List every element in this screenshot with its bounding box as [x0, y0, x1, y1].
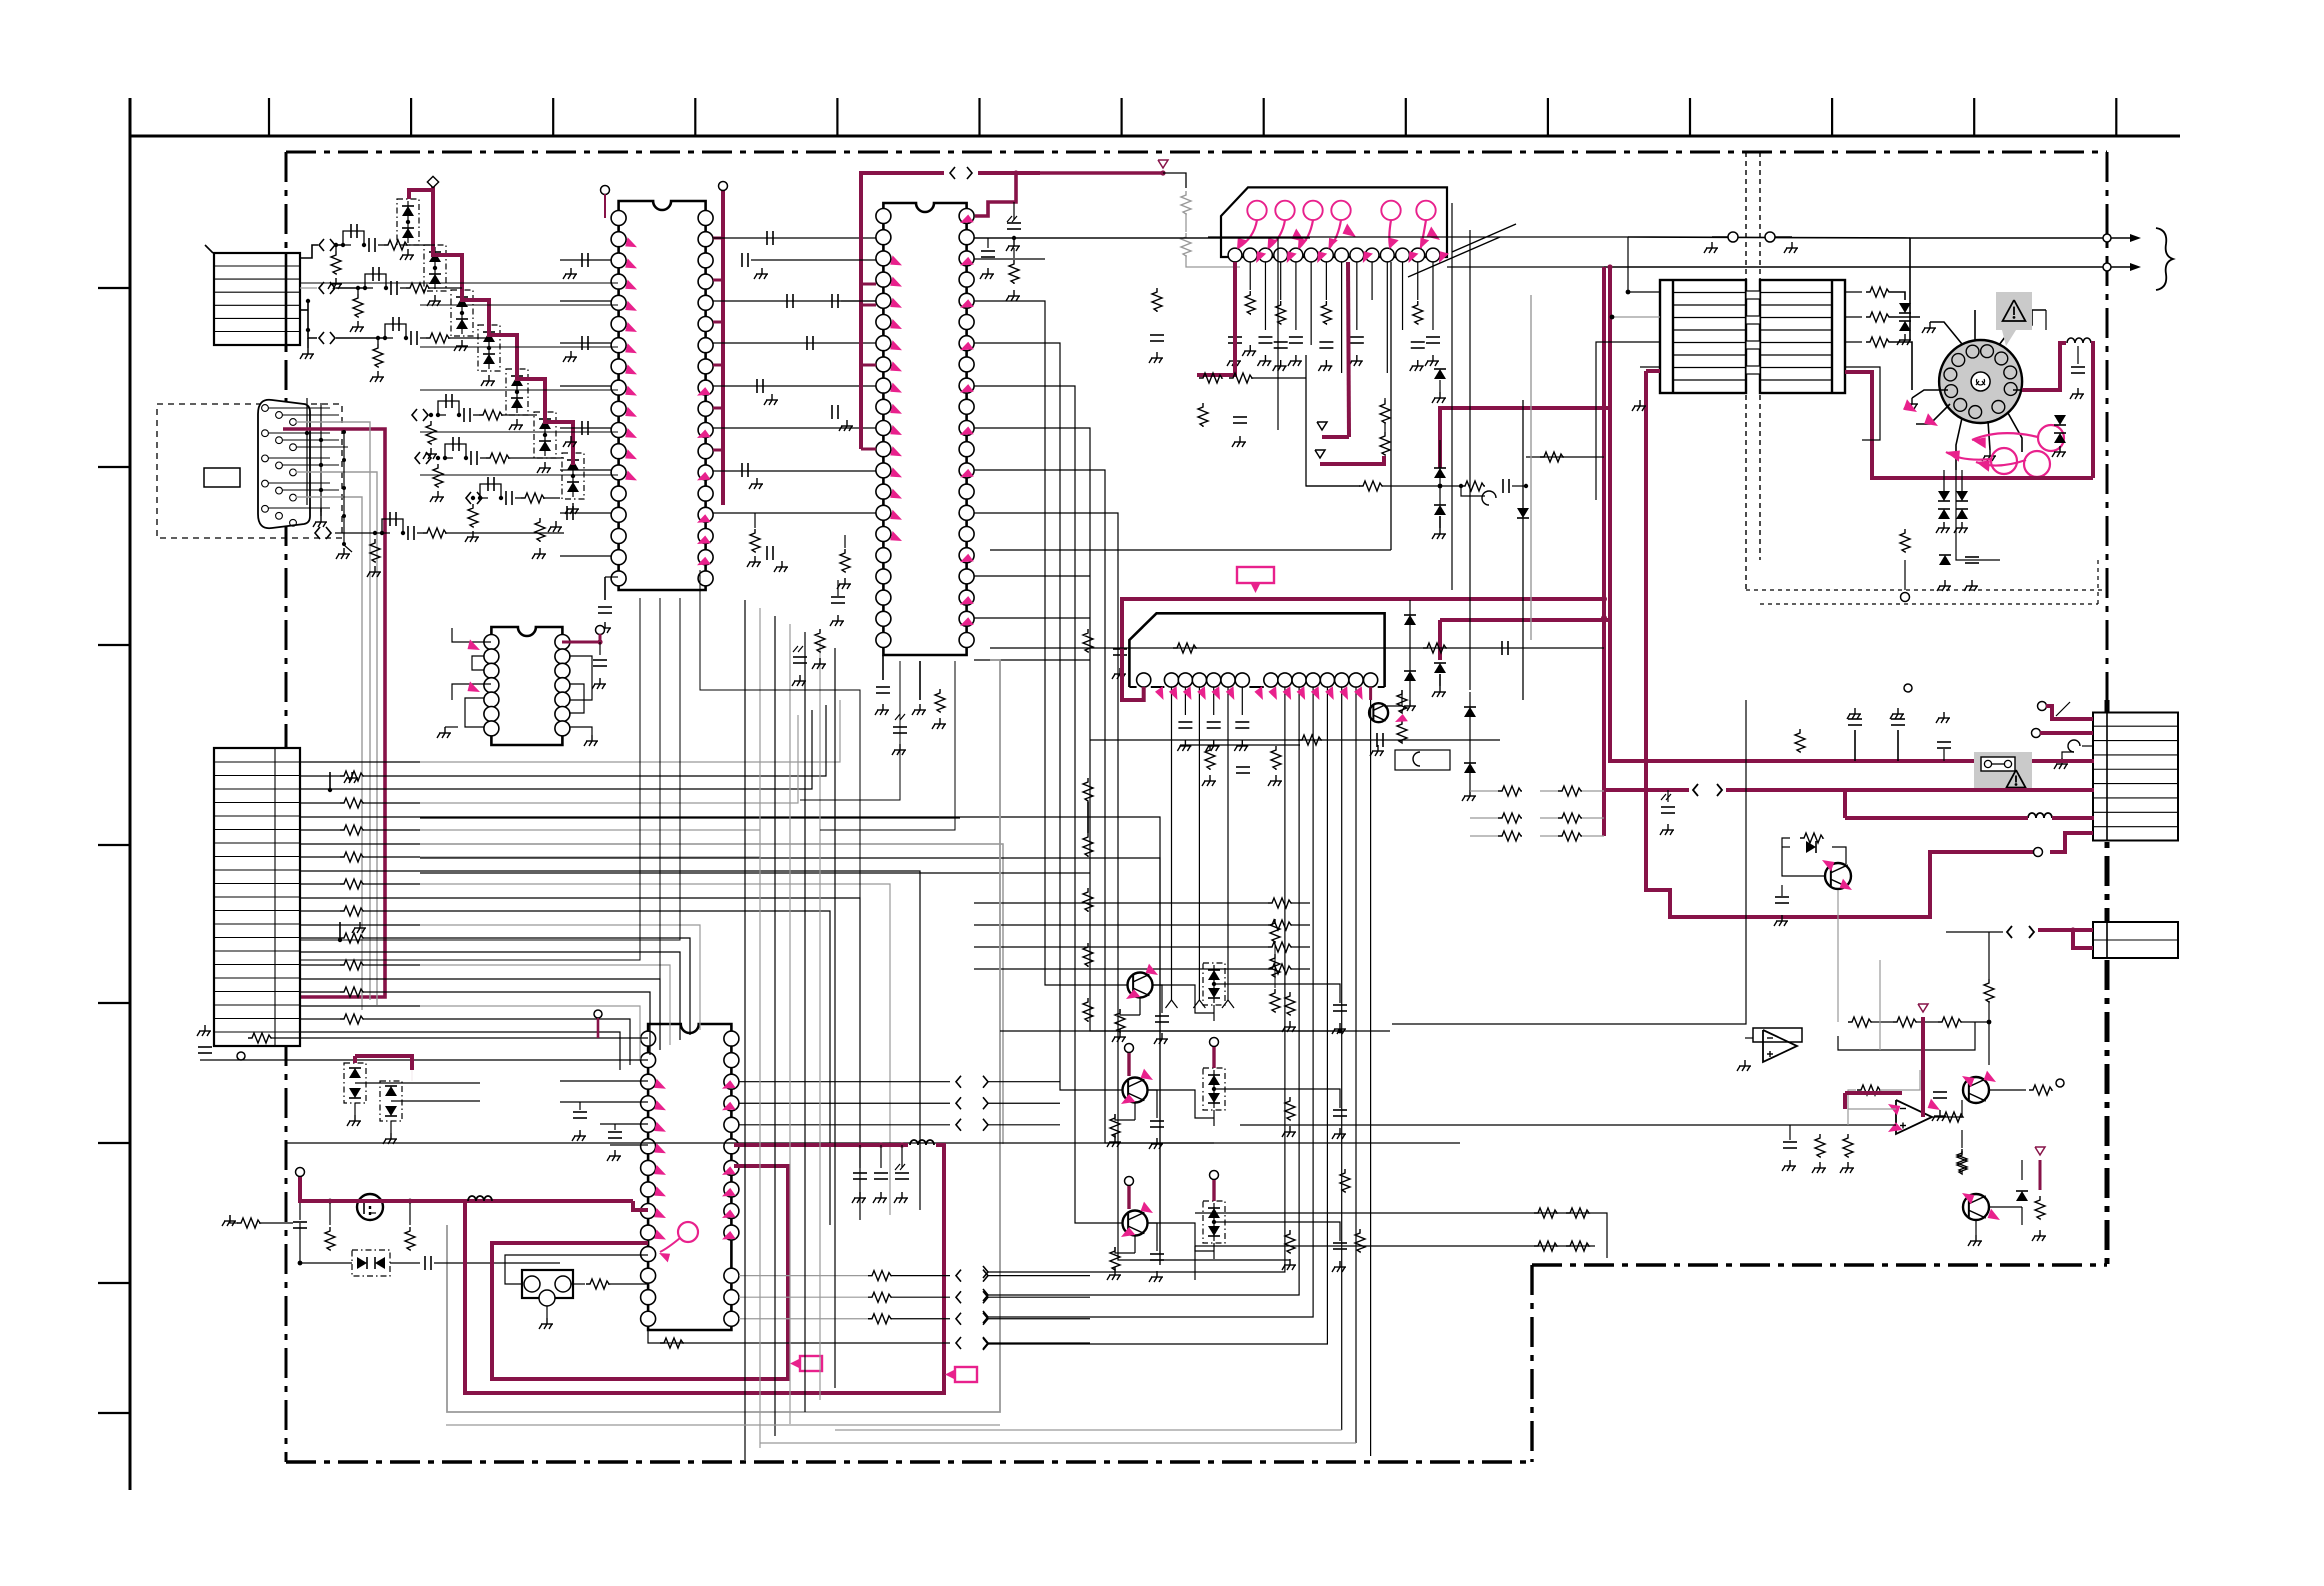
diode pack D64	[380, 1081, 402, 1144]
clamp diode pack D613	[1148, 1201, 1291, 1259]
switch transistor Q613	[1107, 1202, 1164, 1282]
motor ground bottom	[1989, 450, 1991, 456]
IC4 maroon supply	[1122, 596, 1610, 700]
row4 shunt resistor	[423, 413, 437, 459]
IC4 emitter follower Q601	[1369, 687, 1408, 756]
frame top tick marks	[269, 98, 2116, 136]
service position balloons	[1903, 399, 2064, 477]
cross wires IC1 area	[300, 283, 618, 475]
input chevrons CN2 row	[315, 527, 320, 539]
bus wire B2	[420, 844, 1003, 1144]
diode pack D603	[451, 290, 473, 336]
head block pin drops	[1227, 262, 1440, 373]
maroon D63 feed	[355, 1056, 412, 1081]
right vertical feed	[1392, 700, 1746, 1024]
IC2 left lower rc	[792, 580, 845, 686]
maroon CN52 link	[1946, 926, 2093, 948]
motor sense diodes	[1936, 470, 1968, 533]
connector CN1	[214, 253, 300, 345]
motor bottom run	[1900, 470, 2000, 692]
right gray drop	[1879, 960, 1881, 1050]
head bias resistor row	[1199, 373, 1306, 383]
op-amp IC52b	[1240, 1070, 1947, 1173]
ground for D605	[516, 419, 518, 425]
Q613 maroon stub	[1125, 1177, 1134, 1210]
Q612 maroon stub	[1125, 1044, 1134, 1077]
label T602	[955, 1367, 977, 1382]
vertical harness bundle	[745, 600, 835, 1460]
transformer left leads	[1208, 237, 1660, 500]
wire to output lower	[1604, 266, 2103, 268]
IC2 pink arrows	[890, 215, 974, 626]
decoupling row B	[832, 294, 876, 589]
rotary transformer T501 rotor	[1760, 280, 1845, 393]
dashed terminals top	[1704, 232, 1798, 253]
fuse warning block	[1974, 752, 2032, 790]
group 3 bias parts	[1282, 1222, 1347, 1272]
diode pack D607	[562, 453, 584, 499]
CN2 gray harness	[296, 422, 377, 1010]
CN51 pin2 maroon	[2032, 729, 2094, 738]
frame left tick marks	[98, 288, 130, 1413]
IC1 bottom ground	[597, 577, 618, 633]
row1 shunt resistor	[328, 243, 342, 289]
board boundary dash-dot bottom	[286, 1460, 1532, 1463]
connector CN2 D-sub dashed enclosure	[157, 404, 342, 538]
CN2 option block	[204, 468, 240, 487]
IC3 maroon caps	[852, 1142, 909, 1203]
RC cluster row6	[478, 477, 560, 505]
right resistor chain	[1838, 890, 1994, 1065]
CN51 pin3 hook	[2054, 740, 2093, 769]
drum motor M501	[1939, 340, 2022, 423]
wire to output arrows	[1910, 238, 2103, 340]
RC cluster row3	[383, 317, 490, 345]
IC2 maroon supply left	[861, 167, 1040, 449]
input chevrons row6	[466, 492, 471, 504]
dual diode pack D62	[298, 1223, 560, 1276]
head block maroon bus	[1197, 262, 1349, 437]
nabla terminal above IC2 rail	[1158, 160, 1168, 168]
gray return bus	[447, 660, 1000, 1412]
clamp diode pack D612	[1148, 1068, 1291, 1126]
diode pack D605	[506, 369, 528, 415]
maroon rail V2 top	[1608, 268, 1612, 408]
IC1 left pin components	[532, 253, 611, 559]
output arrow upper	[2103, 234, 2141, 242]
row5 shunt resistor	[430, 456, 444, 502]
bus wire B3	[420, 858, 1160, 1265]
bias rail row 2	[1195, 1241, 1595, 1280]
divider resistors x1385	[1380, 398, 1390, 455]
label T601	[800, 1356, 822, 1371]
motor lead wires	[1912, 310, 2046, 470]
rail continuation wire	[1163, 173, 1240, 267]
diode pack D602	[424, 245, 446, 291]
IC3 top terminals	[594, 1010, 602, 1038]
transformer right maroon jog	[1845, 372, 2093, 478]
IC1 bottom drop wires	[300, 570, 860, 1060]
transformer coupling links	[1746, 291, 1760, 374]
connector CN3	[214, 748, 300, 1046]
mid vertical x1523	[1517, 400, 1529, 700]
output brace	[2156, 228, 2173, 290]
decoupling row A	[742, 253, 876, 572]
IC1 top terminals	[601, 186, 610, 195]
IC4 maroon pin1 branch	[1142, 687, 1145, 702]
supply staircase maroon wiring	[409, 186, 573, 465]
IC3 adjust balloon	[659, 1222, 698, 1262]
maroon MOSFET rail	[296, 1168, 649, 1211]
row6 shunt resistor	[465, 496, 479, 542]
group 1 bias parts	[1282, 984, 1347, 1034]
group horizontal rails	[286, 1029, 1460, 1144]
IC2 maroon supply right top	[975, 170, 1166, 216]
CN2 ground bundle	[336, 430, 352, 559]
right rail caps	[1660, 708, 1951, 835]
crystal X601	[505, 1255, 648, 1329]
board boundary dash-dot step vertical	[1530, 1265, 1533, 1462]
row3 shunt resistor	[370, 336, 384, 382]
head wiring arrows	[1237, 220, 1449, 263]
input chevrons row1	[319, 239, 324, 251]
frame top border	[130, 135, 2180, 138]
warning callout W1	[1996, 292, 2032, 346]
bus wire B1	[420, 817, 960, 819]
mid vertical black x1391	[990, 262, 1391, 550]
right transistor Q51	[1774, 833, 1852, 926]
video head assembly outline	[1221, 187, 1447, 257]
IC2 bottom drop wires	[800, 661, 955, 830]
RC cluster row7	[380, 512, 564, 540]
motor ground left	[1911, 398, 1913, 404]
IC602 video process	[876, 203, 974, 655]
maroon rail V3	[1646, 371, 2042, 917]
maroon rail V2	[1610, 408, 2094, 761]
mid vertical drop x1452	[1451, 203, 1453, 590]
IC3 right upper wires	[739, 1076, 1060, 1131]
board boundary dash-dot bottom-right	[1532, 1263, 2107, 1266]
connector CN2 D-sub shell	[258, 400, 310, 528]
CN3 shield terminal	[237, 1052, 245, 1060]
ground for D602	[434, 295, 436, 301]
board boundary dash-dot left	[285, 152, 288, 1462]
IC2 bottom caps	[875, 655, 946, 755]
group 2 bias parts	[1282, 1089, 1347, 1139]
mid vertical drop x1470	[1469, 230, 1471, 690]
ground for D601	[407, 249, 409, 255]
mid rc row2	[990, 600, 1604, 711]
supply terminal diamond	[427, 176, 438, 187]
diode pack D606	[534, 412, 556, 458]
mid rc row3	[1090, 692, 1500, 801]
diode pack D601	[397, 199, 419, 245]
IC1 pink pin arrows	[625, 237, 711, 565]
diode pack D604	[478, 325, 500, 371]
ground for D603	[461, 340, 463, 346]
IC2 right resistor ladder	[974, 778, 1310, 1022]
CN3 fan-out harness	[300, 700, 1160, 1265]
CN51 pin1 maroon	[2038, 702, 2094, 720]
maroon op-amp feed	[1845, 1004, 1928, 1117]
IC5 wiring	[437, 626, 607, 747]
mid vertical maroon x1531	[1530, 295, 1532, 640]
rotary transformer T501 stator	[1660, 280, 1746, 393]
IC3 right outputs	[648, 1270, 1090, 1349]
switch transistor Q611	[1112, 964, 1169, 1044]
transformer right leads	[1845, 287, 1920, 440]
dotted partition lines	[1746, 152, 2107, 604]
IC2 right rc cluster	[1083, 288, 1300, 786]
x1604 resistor taps	[1470, 786, 1604, 841]
mid resistor columns	[1270, 919, 1365, 1252]
ground for D606	[544, 462, 546, 468]
connector CN52	[2093, 922, 2178, 958]
maroon C-link	[1440, 408, 1610, 468]
IC1 right rail stubs	[713, 238, 723, 450]
mid rc row1	[1526, 452, 1604, 462]
D612 maroon stub	[1210, 1038, 1219, 1069]
CN2 maroon power wire	[283, 429, 385, 997]
board boundary dash-dot top	[286, 151, 2107, 154]
head connector pins	[1228, 248, 1440, 262]
switch transistor Q612	[1107, 1069, 1164, 1149]
ground for D607	[572, 503, 574, 509]
CN3 internal grounds	[328, 772, 366, 942]
op-amp output to Q52	[1932, 1071, 2064, 1172]
ground for D604	[488, 375, 490, 381]
CN2 pin bus	[268, 398, 348, 527]
maroon branch nabla2	[1315, 450, 1384, 464]
maroon CN51 pin8 entry	[2034, 833, 2094, 857]
input chevrons row2	[319, 282, 324, 294]
output arrow lower	[2103, 263, 2141, 271]
MOSFET Q62	[357, 1194, 383, 1220]
input chevrons row5	[415, 452, 420, 464]
input chevrons row4	[412, 409, 417, 421]
head ident slashes	[1452, 224, 1516, 252]
IC3 pink arrows	[654, 1079, 736, 1240]
IC3 left components	[197, 1025, 648, 1161]
motor right maroon	[2022, 310, 2093, 478]
IC604 audio process	[641, 1024, 739, 1330]
IC603 op-amp array	[484, 627, 570, 745]
mid diode chains	[1432, 440, 1446, 697]
transistor Q53	[1957, 1147, 2046, 1246]
bus wire B4	[420, 872, 1090, 874]
mid vertical black x1306	[1306, 355, 1360, 486]
CN1 stub wires	[205, 245, 385, 359]
board boundary dash-dot right	[2106, 152, 2109, 700]
input chevrons row3	[319, 332, 324, 344]
IC2 top right decoupling	[974, 202, 1278, 430]
diode pack D63	[344, 1063, 366, 1126]
frame left border	[129, 98, 132, 1490]
MOSFET bias	[222, 1199, 415, 1250]
clamp diode upper x1440	[1432, 369, 1446, 403]
motor ground top	[1929, 322, 1931, 328]
RC cluster row4	[436, 394, 537, 422]
RC cluster row2	[363, 267, 462, 295]
maroon branch nabla1	[1317, 422, 1349, 437]
head coils	[1247, 201, 1435, 220]
head block maroon to transformer	[1646, 369, 1660, 373]
IC601 servo/syscon	[611, 201, 713, 590]
maroon feed CN51 row4	[1845, 790, 2094, 818]
IC605 chroma/luma hybrid	[1129, 613, 1384, 687]
IC4 output drops	[760, 687, 1371, 1456]
bias rail row 1	[1195, 1208, 1607, 1258]
D63 cross wires	[355, 1083, 480, 1101]
maroon feed CN51 row2	[1604, 784, 2094, 796]
IC3 maroon loops	[465, 1140, 944, 1393]
IC1 right maroon rail	[721, 190, 725, 505]
row7 shunt resistor	[335, 531, 382, 577]
connector CN51	[2093, 713, 2178, 841]
IC4 pin grounds	[1166, 687, 1250, 1008]
D613 maroon stub	[1210, 1171, 1219, 1202]
RC cluster row1	[341, 224, 435, 252]
IC1 interconnect wires	[713, 231, 876, 513]
lower horizontal links	[446, 1424, 1000, 1426]
maroon rail V1	[1447, 267, 1604, 836]
clamp diode pack D611	[1153, 963, 1291, 1021]
IC2 right fan wires	[974, 238, 1340, 1260]
mid rc line y486	[1306, 479, 1528, 505]
RC cluster row5	[443, 437, 564, 465]
op-amp IC52a	[1737, 1028, 1802, 1071]
IC4 pin arrows	[1155, 686, 1363, 700]
row2 shunt resistor	[350, 286, 364, 332]
IC4 label	[1237, 567, 1274, 583]
